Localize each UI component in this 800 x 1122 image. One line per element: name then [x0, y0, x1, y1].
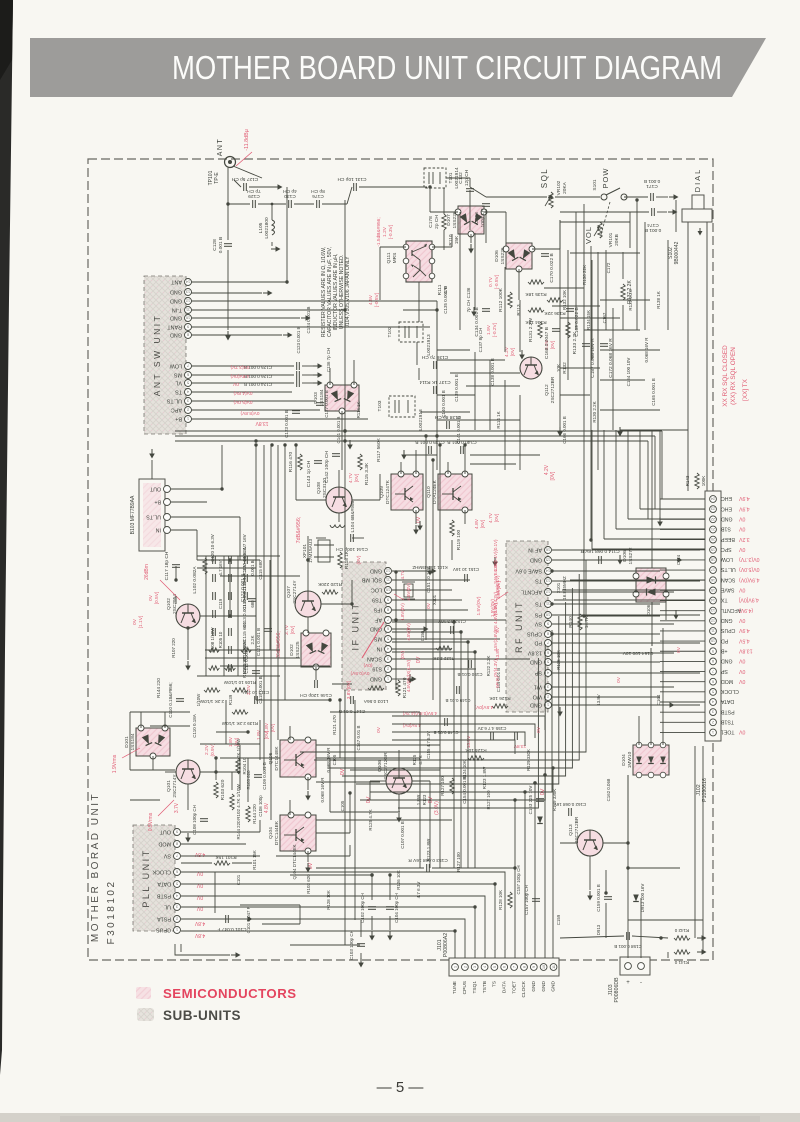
- svg-text:9: 9: [547, 622, 549, 626]
- svg-text:2.2K: 2.2K: [250, 635, 255, 644]
- svg-text:4: 4: [712, 700, 714, 704]
- svg-text:D106: D106: [494, 250, 500, 262]
- diode D106 1SS226: [503, 243, 535, 272]
- pin GND of sub-unit IF UNIT: [370, 568, 392, 575]
- wire Q108 base: [296, 499, 326, 501]
- resistor R135 18K: [528, 280, 544, 284]
- svg-text:0V(4.8V): 0V(4.8V): [233, 390, 252, 396]
- wire elbow: [469, 178, 471, 187]
- wire R119 down: [451, 540, 453, 560]
- capacitor C152 3.3 10V: [451, 626, 454, 634]
- wire J102 pin 14 stub: [660, 630, 705, 632]
- capacitor C108 100p CH: [200, 819, 208, 822]
- svg-text:12: 12: [186, 299, 190, 303]
- resistor R116 470: [298, 454, 302, 470]
- wire J102 pin 2 stub: [660, 508, 705, 510]
- resistor ladder 3: [225, 666, 236, 670]
- pin SCAN of J102: [710, 576, 760, 583]
- svg-text:R127 100: R127 100: [440, 776, 445, 796]
- pin GND of sub-unit IF UNIT: [370, 626, 392, 633]
- wire TR horizontal 12: [600, 409, 660, 411]
- pin TSTB of J101: [481, 964, 488, 994]
- svg-text:0V: 0V: [232, 381, 239, 387]
- svg-text:0V: 0V: [196, 905, 203, 911]
- wire PLL CPUS: [181, 930, 246, 932]
- svg-text:4.5V(0V): 4.5V(0V): [406, 583, 411, 601]
- wire PLL line 3 to J101: [181, 896, 485, 958]
- svg-text:IF UNIT: IF UNIT: [351, 602, 361, 651]
- svg-text:11: 11: [386, 578, 390, 582]
- wire C horizontal 1: [437, 349, 470, 351]
- transformer T102 L0021913: [399, 322, 423, 342]
- wire J102 feed 5: [592, 548, 705, 550]
- svg-text:14: 14: [711, 598, 715, 602]
- wire J102 feed 6: [570, 579, 705, 581]
- wire B+ drop: [418, 368, 420, 380]
- svg-text:1.8V: 1.8V: [256, 729, 262, 740]
- wire J102 pin 19 stub: [660, 681, 705, 683]
- wire bus B2 horizontal: [175, 435, 655, 437]
- svg-text:0V: 0V: [132, 618, 138, 625]
- wire TR horizontal 2: [560, 221, 630, 223]
- capacitor C156: [515, 732, 518, 740]
- pin GND of sub-unit ANT SW UNIT: [170, 298, 192, 305]
- svg-text:1: 1: [176, 928, 178, 932]
- svg-text:R116 470: R116 470: [288, 451, 294, 472]
- svg-text:24: 24: [711, 497, 715, 501]
- svg-text:-: -: [640, 980, 642, 986]
- wire BC horizontal 1: [316, 744, 440, 746]
- wire to L105: [271, 204, 273, 220]
- capacitor ladder 2: [213, 574, 216, 582]
- svg-text:R101 15K: R101 15K: [215, 854, 237, 860]
- capacitor C127 5p CH: [244, 183, 247, 191]
- wire IF pin y600: [392, 599, 462, 601]
- wire GND pin stub: [191, 292, 262, 294]
- svg-text:TS9: TS9: [372, 597, 382, 603]
- svg-text:C164 100 10V: C164 100 10V: [626, 358, 631, 387]
- capacitor C170 0.022 B: [541, 254, 549, 257]
- svg-text:0.5Vrms: 0.5Vrms: [148, 812, 154, 831]
- wire LM horizontal 3: [220, 575, 300, 577]
- svg-text:R122 2.2K: R122 2.2K: [486, 656, 491, 677]
- wire C103 down: [360, 953, 362, 958]
- wire PLL line 1 to J101: [181, 872, 505, 958]
- svg-text:2: 2: [463, 966, 467, 968]
- svg-text:0V: 0V: [738, 678, 745, 684]
- diode D106 1SS272: [633, 568, 669, 602]
- wire Q111 in: [380, 246, 406, 248]
- pin GND of sub-unit RF UNIT: [530, 659, 552, 666]
- svg-text:IFS: IFS: [373, 607, 382, 613]
- capacitor C115 680: [229, 628, 232, 636]
- inductor L105 L0021800: [272, 220, 275, 235]
- capacitor C172 0.068 16V R: [600, 344, 608, 347]
- capacitor C143 1p CH: [314, 461, 322, 464]
- svg-text:TP-E: TP-E: [214, 172, 220, 184]
- wire PLL bottom: [175, 944, 230, 955]
- wire J102 pin 11 stub: [660, 600, 705, 602]
- svg-text:R140: R140: [568, 616, 574, 628]
- svg-text:0V: 0V: [738, 526, 745, 532]
- svg-text:SP: SP: [720, 668, 727, 674]
- svg-text:0V: 0V: [416, 516, 422, 523]
- wire BC vertical 1: [344, 690, 346, 945]
- svg-text:[0V]: [0V]: [550, 341, 556, 350]
- capacitor C109 0.001 B: [254, 775, 262, 778]
- svg-text:0V(4.3V): 0V(4.3V): [493, 659, 498, 677]
- wire J102 feed 2: [628, 518, 705, 520]
- resistor ladder 1: [209, 648, 220, 652]
- svg-text:R115 3.3K: R115 3.3K: [364, 462, 370, 485]
- svg-text:3.2V: 3.2V: [738, 536, 749, 542]
- svg-text:TSQ1: TSQ1: [472, 981, 478, 994]
- pin W1 of sub-unit RF UNIT: [534, 684, 552, 691]
- svg-text:100p CH: 100p CH: [480, 208, 486, 227]
- svg-text:R139 2.2K 1/10W: R139 2.2K 1/10W: [221, 721, 258, 726]
- svg-text:0V(3.7V): 0V(3.7V): [230, 364, 249, 370]
- pin TS1B of J102: [710, 719, 734, 726]
- svg-text:7p CH C136: 7p CH C136: [466, 287, 471, 312]
- wire Q113 base: [560, 842, 577, 844]
- wire IF pin y649: [392, 648, 452, 650]
- capacitor bypass y375: [297, 371, 300, 379]
- wire J102 pin 23 stub: [660, 721, 705, 723]
- svg-text:UL.TS: UL.TS: [146, 514, 161, 520]
- wire C horizontal 10: [470, 463, 516, 465]
- wire Q106 out: [412, 780, 430, 782]
- svg-text:IN: IN: [377, 646, 382, 652]
- svg-text:0V: 0V: [738, 658, 745, 664]
- switch S101 POW: [601, 188, 627, 200]
- svg-text:5: 5: [187, 381, 189, 385]
- wire ANT pin to node: [191, 281, 287, 283]
- wire elbow up: [259, 820, 261, 832]
- svg-text:TUNE: TUNE: [452, 981, 458, 994]
- wire up: [229, 560, 231, 616]
- pin GND of J101: [530, 964, 537, 992]
- wire pin3 long: [191, 300, 437, 302]
- svg-text:1.9Vrms: 1.9Vrms: [112, 754, 118, 773]
- svg-text:1: 1: [387, 677, 389, 681]
- wire ladder vertical 5: [255, 556, 257, 648]
- pin PS1A of sub-unit PLL UNIT: [157, 916, 181, 923]
- wire Q105 right: [316, 757, 340, 759]
- svg-text:AFCNTL: AFCNTL: [521, 589, 542, 595]
- svg-text:+: +: [626, 980, 630, 986]
- svg-text:L102 0.082A: L102 0.082A: [192, 566, 198, 594]
- svg-text:0V: 0V: [196, 894, 203, 900]
- wire RF pin y697: [552, 696, 660, 698]
- svg-text:5: 5: [712, 690, 714, 694]
- junction dots: [226, 202, 229, 205]
- svg-text:[1.1V]: [1.1V]: [138, 616, 144, 629]
- capacitor C133 100p CH: [482, 204, 490, 207]
- svg-text:(0.9V): (0.9V): [210, 743, 216, 756]
- ground (C127): [273, 184, 283, 190]
- pin LOW of sub-unit ANT SW UNIT: [169, 363, 192, 370]
- ground (bypass 375): [313, 372, 323, 378]
- svg-text:AF IN: AF IN: [528, 547, 542, 553]
- wire TP101 to C127: [234, 180, 241, 187]
- wire Q102 emitter: [187, 628, 189, 660]
- resistor R139 2.2K 1/10W: [232, 710, 248, 714]
- wire stair bus 2: [314, 574, 579, 760]
- svg-text:2.2V: 2.2V: [204, 744, 210, 755]
- svg-text:D106: D106: [646, 604, 651, 615]
- wire PLL line 6 to J101: [181, 931, 455, 958]
- wire R102: [231, 772, 233, 790]
- svg-text:GND: GND: [530, 702, 542, 708]
- wire PLL MOD: [181, 843, 246, 845]
- resistor R103 620: [214, 782, 218, 798]
- schematic dashed border frame: [88, 159, 713, 960]
- pin GND of sub-unit ANT SW UNIT: [170, 289, 192, 296]
- svg-text:C101 0.047 F: C101 0.047 F: [246, 906, 251, 933]
- pin GND of J101: [550, 964, 557, 992]
- capacitor C101 0.047 F: [226, 915, 229, 923]
- wire Q105 top: [289, 726, 291, 740]
- svg-text:0V: 0V: [376, 726, 382, 733]
- wire stair bus 6: [370, 630, 552, 792]
- svg-text:IN: IN: [156, 527, 161, 533]
- pin - of J103: [638, 963, 645, 986]
- svg-text:R107 220: R107 220: [171, 638, 176, 658]
- pin CPUS of sub-unit PLL UNIT: [156, 927, 181, 934]
- svg-text:GND: GND: [721, 658, 733, 664]
- svg-text:PSTB: PSTB: [157, 893, 171, 899]
- svg-text:5: 5: [176, 882, 178, 886]
- scan edge bottom strip: [0, 1113, 800, 1122]
- svg-text:13: 13: [711, 608, 715, 612]
- svg-text:T-IN: T-IN: [172, 307, 182, 313]
- pin CLOCK of sub-unit PLL UNIT: [152, 869, 180, 876]
- wire IF pin y590: [392, 589, 452, 591]
- svg-text:2SC2712BR: 2SC2712BR: [574, 816, 580, 843]
- wire: [332, 683, 352, 685]
- svg-text:8: 8: [176, 842, 178, 846]
- wire J102 pin 24 stub: [660, 731, 705, 733]
- wire R141 down: [667, 952, 669, 958]
- svg-text:6: 6: [503, 966, 507, 968]
- svg-text:C124 0.001 B: C124 0.001 B: [244, 382, 272, 387]
- capacitor C176 8p CH: [317, 200, 320, 208]
- svg-text:4.9V: 4.9V: [738, 495, 749, 501]
- svg-text:C123 0.001 B: C123 0.001 B: [296, 327, 301, 354]
- svg-text:CLOCK: CLOCK: [152, 869, 171, 875]
- wire J102 pin 12 stub: [660, 610, 705, 612]
- svg-text:R105 10 1/10W: R105 10 1/10W: [223, 680, 256, 685]
- svg-text:8: 8: [522, 966, 526, 968]
- svg-text:C118 0.001 B: C118 0.001 B: [258, 676, 263, 703]
- svg-text:(4.9V): (4.9V): [739, 607, 753, 613]
- wire J102 pin 3 stub: [660, 518, 705, 520]
- wire D107 to right: [484, 211, 506, 213]
- svg-text:3.8V[0V]: 3.8V[0V]: [346, 681, 352, 699]
- svg-text:MRS: MRS: [392, 253, 398, 264]
- svg-text:7: 7: [712, 669, 714, 673]
- connector J102 P1090616: [705, 491, 721, 741]
- wire vertical bundle V2: [263, 445, 265, 770]
- wire BL fill 7: [200, 771, 240, 773]
- wire LM horizontal 2: [197, 567, 256, 569]
- ground (C102): [369, 931, 375, 941]
- wire down: [239, 517, 241, 560]
- svg-text:— 5 —: — 5 —: [377, 1079, 424, 1096]
- capacitor C131 10p CH: [354, 183, 357, 191]
- capacitor ladder 3: [213, 592, 216, 600]
- wire C vertical 5: [519, 300, 521, 352]
- mechanical link dashed: [600, 202, 610, 238]
- wire TP101 down: [227, 168, 229, 240]
- svg-text:23: 23: [711, 507, 715, 511]
- wire BC vertical 2: [354, 700, 356, 920]
- svg-text:R114 1K: R114 1K: [496, 411, 501, 428]
- wire C171 to gnd: [656, 196, 668, 198]
- wire rail down to R142: [694, 746, 696, 938]
- resistor R124 10K: [468, 756, 484, 760]
- pin OUT of sub-unit PLL UNIT: [159, 829, 181, 836]
- wire C176 out: [322, 203, 347, 205]
- svg-text:PD: PD: [721, 637, 728, 643]
- ground: [557, 427, 563, 437]
- svg-text:TS: TS: [535, 601, 542, 607]
- wire J102 pin 17 stub: [660, 660, 705, 662]
- svg-text:DTC144EK: DTC144EK: [274, 820, 280, 845]
- svg-text:T102: T102: [387, 326, 393, 337]
- svg-text:LOW: LOW: [169, 363, 182, 369]
- pin WO of sub-unit RF UNIT: [533, 694, 552, 701]
- svg-text:GND: GND: [721, 516, 733, 522]
- ground (pin2): [263, 290, 273, 296]
- capacitor C120 10 6.3V: [229, 556, 232, 564]
- wire TR horizontal 11: [560, 394, 590, 396]
- svg-text:C162 0.068: C162 0.068: [606, 778, 611, 801]
- wire R101 drop: [214, 872, 216, 913]
- wire row y820: [316, 819, 452, 821]
- wire TR horizontal 6: [560, 317, 620, 319]
- svg-text:C165 0.001 B: C165 0.001 B: [651, 378, 656, 406]
- svg-text:RF UNIT: RF UNIT: [514, 600, 524, 653]
- svg-text:4: 4: [187, 390, 189, 394]
- svg-text:17: 17: [711, 568, 715, 572]
- svg-text:11: 11: [711, 629, 715, 633]
- svg-text:CPUS: CPUS: [720, 627, 735, 633]
- wire D104 down: [627, 775, 629, 843]
- capacitor R106 220: [229, 664, 232, 672]
- wire Q101 base: [165, 771, 176, 773]
- svg-text:13.8V: 13.8V: [596, 694, 601, 706]
- svg-text:[XX] TX: [XX] TX: [742, 378, 749, 401]
- capacitor C150 0.01 B: [469, 660, 472, 668]
- pin B+ of sub-unit ANT SW UNIT: [175, 416, 191, 423]
- pin UL.TS of sub-unit ANT SW UNIT: [166, 398, 191, 405]
- pin SAVE 0.6V of sub-unit RF UNIT: [515, 568, 551, 575]
- ground: [492, 557, 498, 567]
- svg-text:DATA: DATA: [501, 980, 507, 993]
- svg-text:3: 3: [187, 399, 189, 403]
- wire C102 top: [371, 875, 373, 900]
- annotation leader lines: [496, 592, 508, 600]
- wire center long vertical 3: [425, 436, 427, 640]
- pin PD of sub-unit RF UNIT: [534, 640, 551, 647]
- svg-text:C147 0.01 B: C147 0.01 B: [339, 708, 366, 714]
- svg-text:SP 0V: SP 0V: [495, 676, 500, 688]
- wire RANT long: [191, 326, 430, 328]
- svg-text:R125 4.7K: R125 4.7K: [368, 809, 373, 830]
- wire to T101: [359, 186, 427, 188]
- svg-text:0V: 0V: [148, 594, 154, 601]
- svg-text:C178: C178: [428, 216, 434, 228]
- svg-text:C108 100p: C108 100p: [258, 795, 263, 817]
- svg-text:9: 9: [532, 966, 536, 968]
- svg-text:MS: MS: [174, 372, 182, 378]
- wire RF pin y653: [552, 652, 674, 654]
- svg-text:1.5V(0V): 1.5V(0V): [476, 596, 482, 615]
- pin UL.TS of B103: [146, 514, 171, 521]
- pin LOW of J102: [710, 556, 760, 563]
- svg-text:SQL MB: SQL MB: [361, 577, 382, 583]
- pin TOE1 of J102: [710, 729, 746, 736]
- resistor R134 15K: [528, 308, 544, 312]
- svg-text:Q110: Q110: [426, 486, 432, 498]
- wire Q109 top2: [415, 450, 417, 474]
- wire TR vertical 7: [644, 222, 646, 330]
- wire LM horizontal 4: [205, 649, 280, 651]
- wire C159 up: [605, 870, 607, 893]
- pin GND of J101: [540, 964, 547, 992]
- transistor Q110 DTA124EK: [438, 471, 472, 513]
- capacitor C144 100p CH: [351, 534, 354, 542]
- pin SCAN of sub-unit IF UNIT: [367, 656, 392, 663]
- svg-text:R103 620: R103 620: [220, 779, 226, 800]
- svg-text:R134 15K: R134 15K: [586, 310, 591, 330]
- svg-text:4.9V: 4.9V: [738, 505, 749, 511]
- svg-text:-1.5dB&#956;: -1.5dB&#956;: [376, 217, 382, 246]
- resistor R115 3.3K: [358, 454, 362, 470]
- pin DATA of J102: [710, 698, 734, 705]
- svg-text:C151 10 16V: C151 10 16V: [453, 567, 479, 572]
- svg-text:0.068 16V R: 0.068 16V R: [320, 777, 325, 803]
- svg-text:[0V]: [0V]: [480, 520, 486, 529]
- wire BL fillv 3: [259, 720, 261, 760]
- inductor L103: [368, 686, 384, 690]
- svg-text:SPC: SPC: [721, 546, 732, 552]
- svg-text:C123 0.001 B: C123 0.001 B: [284, 410, 289, 438]
- wire vertical bundle V4: [277, 445, 279, 740]
- wire x437 vert: [436, 301, 438, 330]
- svg-text:P00806A2: P00806A2: [443, 933, 449, 957]
- svg-text:19: 19: [711, 548, 715, 552]
- ground (Q104): [305, 863, 311, 873]
- svg-text:MOD: MOD: [158, 841, 171, 847]
- wire D106b down2: [651, 602, 653, 640]
- pin GND of sub-unit RF UNIT: [530, 557, 552, 564]
- pin TS of sub-unit ANT SW UNIT: [175, 389, 192, 396]
- ground (B103): [149, 449, 155, 459]
- wire C vertical 7: [489, 360, 491, 430]
- pin T-IN of sub-unit ANT SW UNIT: [172, 307, 192, 314]
- svg-text:SV: SV: [163, 853, 171, 859]
- wire Q104 bottom: [307, 851, 309, 862]
- svg-text:9: 9: [176, 830, 178, 834]
- wire D103 bottom down: [341, 411, 343, 470]
- wire rise: [347, 187, 352, 204]
- wire under-RF bus 1: [392, 716, 545, 730]
- svg-text:C131 10p CH: C131 10p CH: [337, 176, 367, 182]
- wire TR horizontal 5: [552, 305, 600, 307]
- svg-text:4.9V[0V]: 4.9V[0V]: [738, 597, 758, 603]
